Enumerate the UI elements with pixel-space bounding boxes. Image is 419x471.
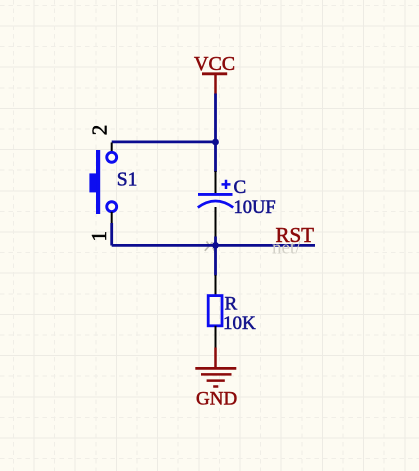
capacitor C pin 1 <box>215 171 217 194</box>
resistor R pin 1 <box>215 275 217 296</box>
svg-text:C: C <box>234 177 247 198</box>
switch S1 contact bottom <box>107 202 117 212</box>
capacitor C top plate <box>198 193 233 196</box>
watermark cross <box>205 242 216 253</box>
switch S1 pin 1 stub <box>111 212 113 223</box>
wire <box>214 247 217 276</box>
wire <box>110 223 113 246</box>
switch S1 button knob <box>89 173 96 192</box>
switch S1 contact top <box>107 152 117 162</box>
wire <box>214 94 217 143</box>
switch S1 pin 2 stub <box>111 143 113 153</box>
svg-text:VCC: VCC <box>194 53 235 75</box>
resistor R pin 2 <box>215 326 217 348</box>
svg-text:R: R <box>225 294 238 315</box>
svg-text:2: 2 <box>88 125 112 136</box>
wire RST <box>112 244 315 247</box>
capacitor C plus sign <box>222 180 231 189</box>
junction <box>212 139 219 146</box>
svg-text:1: 1 <box>87 231 111 242</box>
svg-text:S1: S1 <box>117 169 138 190</box>
capacitor C pin 2 <box>215 207 217 237</box>
svg-text:10UF: 10UF <box>234 198 276 218</box>
ground bar 1 <box>195 367 236 370</box>
capacitor C bottom plate <box>198 201 233 208</box>
wire <box>214 237 217 246</box>
junction <box>212 242 219 249</box>
svg-text:net/: net/ <box>272 238 301 259</box>
wire <box>214 142 217 172</box>
svg-text:GND: GND <box>196 389 237 410</box>
ground stem <box>214 348 217 369</box>
svg-text:10K: 10K <box>223 313 256 334</box>
ground bar 4 <box>213 385 218 388</box>
resistor R body <box>208 296 222 326</box>
ground bar 2 <box>201 373 232 376</box>
wire <box>112 140 217 143</box>
ground bar 3 <box>207 379 225 382</box>
switch S1 actuator bar <box>96 150 100 214</box>
power symbol VCC <box>202 74 227 95</box>
